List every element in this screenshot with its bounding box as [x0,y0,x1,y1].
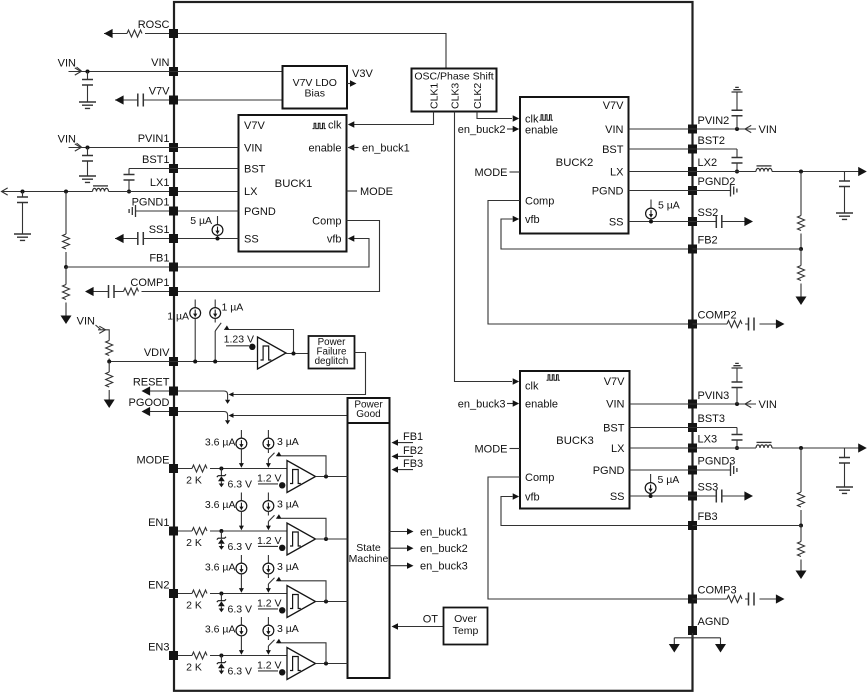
arrow 3.6uA into line (EN3) [239,650,244,655]
zener diode 6.3V (EN3) [220,656,222,663]
wire VIN source leader [77,67,82,71]
node VDIV junction [107,360,111,364]
svg-text:VIN: VIN [759,399,777,411]
current source 5uA (SS3) [650,474,652,483]
capacitor COMP1 external [109,285,115,298]
resistor FB1 divider top [65,192,67,268]
capacitor BST1 bootstrap [128,169,130,192]
current source 3.6uA (EN3) [240,617,242,625]
svg-text:6.3 V: 6.3 V [228,479,253,491]
svg-text:5 µA: 5 µA [658,474,680,486]
svg-text:en_buck1: en_buck1 [362,143,410,155]
arrow VIN source [75,68,81,75]
pin PVIN2 [688,125,697,134]
svg-text:SS: SS [244,234,259,246]
arrow FB3 into State Machine [392,466,399,472]
arrow ROSC external [104,29,113,38]
arrow en_buck1 into BUCK1 [348,144,355,150]
svg-text:SS: SS [609,217,624,229]
node comparator output junction (EN1) [324,537,328,541]
svg-text:LX2: LX2 [698,157,718,169]
wire BST1 to BUCK1 [129,168,239,170]
resistor 2K (EN1) [192,528,207,535]
wire deglitch to RESET [232,353,366,395]
arrow VIN source (VDIV) [99,326,105,333]
wire BUCK3 PGND to PGND3 [630,469,731,471]
current source 5uA (SS2) [650,200,652,209]
svg-text:PGND1: PGND1 [132,197,170,209]
ground PVIN1 cap [79,176,96,182]
ground VIN input cap [79,102,96,108]
svg-text:vfb: vfb [525,214,540,226]
arrow feedback to switch (EN3) [275,639,282,646]
svg-text:BST1: BST1 [142,154,170,166]
node zener junction (EN1) [219,529,223,533]
ground LX2 output cap [836,213,853,219]
node comparator output junction (EN3) [324,662,328,666]
wire EN3 row [178,655,287,657]
svg-text:V7V: V7V [604,376,625,388]
pin COMP2 [688,320,697,329]
svg-text:5 µA: 5 µA [190,215,212,227]
svg-text:V7V: V7V [603,100,624,112]
resistor 2K (MODE) [192,465,207,472]
pin BST1 [169,164,178,173]
wire comparator feedback to switch [226,330,294,354]
node 1uA right junction [213,360,217,364]
wire comparator output to deglitch [286,353,309,355]
svg-text:VIN: VIN [606,399,624,411]
pin SS2 [688,217,697,226]
arrow PGOOD pulldown [225,420,230,424]
ground AGND right arrow [715,644,726,653]
svg-text:OSC/Phase Shift: OSC/Phase Shift [414,71,493,83]
wire PGOOD internal elbow [178,412,228,421]
op-amp U_VDIV comparator [258,337,287,369]
pin BST3 [688,423,697,432]
wire BUCK2 PGND to PGND2 [629,190,731,192]
inductor L3 [756,445,772,448]
svg-text:enable: enable [308,143,341,155]
arrow CLK3 into BUCK3 [513,378,520,384]
wire VIN to LDO [69,71,283,73]
wire LX1 output rail [2,191,170,193]
pin MODE [169,464,178,473]
switch 1uA hysteresis [215,323,221,331]
wire VDIV divider top [98,330,109,362]
wire BUCK3 VIN to PVIN3 [630,403,757,405]
wire LX1 to BUCK1 [178,191,239,193]
svg-text:6.3 V: 6.3 V [228,666,253,678]
ground AGND left arrow [669,644,680,653]
block Power Failure deglitch [309,336,355,369]
node SS1 current source junction [216,237,220,241]
label BUCK2 MODE stub [510,171,521,173]
switch 3uA (EN1) [268,515,274,521]
ground PVIN3 cap [732,363,743,368]
wire SS2 cap to arrow [722,221,745,223]
inductor L2 [756,168,772,171]
capacitor PVIN3 input [736,368,738,404]
capacitor LX2 output [844,172,846,214]
pin COMP3 [688,595,697,604]
arrow FB3 into vfb (BUCK3) [513,493,520,499]
svg-text:3.6 µA: 3.6 µA [205,499,236,511]
svg-text:V7V: V7V [244,120,265,132]
svg-text:FB3: FB3 [403,458,423,470]
arrow SS2 external [744,217,753,226]
arrow en_buck3 output [407,563,414,569]
arrow VIN source (PVIN2) [745,125,751,132]
ground PGND2 [731,185,737,197]
svg-text:3.6 µA: 3.6 µA [205,437,236,449]
svg-text:LX1: LX1 [150,177,170,189]
arrow VIN source (PVIN3) [745,400,751,407]
svg-text:PGND3: PGND3 [698,456,736,468]
svg-text:BUCK1: BUCK1 [275,178,313,190]
resistor ROSC external [127,30,142,37]
resistor FB2 divider top [800,172,802,250]
ground PGND1 [129,205,135,217]
arrow LX2 output [858,167,867,176]
wire FB1 into State Machine [394,442,413,444]
svg-text:1 µA: 1 µA [222,302,244,314]
svg-text:FB2: FB2 [698,235,718,247]
svg-text:3 µA: 3 µA [277,499,299,511]
svg-text:LX: LX [611,443,625,455]
svg-text:VIN: VIN [605,124,623,136]
wire 1.2V ref (EN3) [258,670,278,672]
svg-text:SS2: SS2 [698,207,719,219]
svg-text:FB1: FB1 [149,253,169,265]
wire SS1 external [115,238,169,240]
block Power Good [348,398,390,423]
arrow LX3 output [858,443,867,452]
pin LX2 [688,167,697,176]
resistor COMP3 external [727,596,742,603]
current source 3.6uA (EN2) [240,555,242,563]
switch 3uA (EN2) [268,578,274,584]
wire V7V to LDO [178,99,283,101]
arrow RESET pulldown [225,400,230,404]
wire EN2 row [178,593,287,595]
svg-text:CLK3: CLK3 [450,83,462,109]
wire PGOOD external [150,411,169,413]
svg-text:EN3: EN3 [148,642,169,654]
node PVIN1 cap junction [86,146,90,150]
node LX3 output cap junction [799,446,803,450]
svg-text:MODE: MODE [475,167,508,179]
wire 1.2V ref (EN2) [258,608,278,610]
wire comparator feedback (MODE) [278,456,327,477]
arrow LX1 output [2,188,8,195]
wire FB2 external [693,248,802,250]
svg-text:2 K: 2 K [186,662,202,674]
svg-text:deglitch: deglitch [315,356,349,367]
wire RESET internal elbow [178,391,228,400]
svg-text:PGOOD: PGOOD [129,397,170,409]
pin SS1 [169,234,178,243]
node comparator output junction (EN2) [324,600,328,604]
svg-text:VDIV: VDIV [144,347,170,359]
zener diode 6.3V (EN1) [220,531,222,538]
capacitor SS2 external [716,215,722,228]
pin PGOOD [169,407,178,416]
zener diode 6.3V (EN2) [220,594,222,601]
svg-text:CLK2: CLK2 [472,83,484,109]
node zener junction (EN3) [219,654,223,658]
svg-text:PGND: PGND [244,206,276,218]
capacitor SS3 external [716,490,722,503]
wire comparator output (EN1) [316,538,348,540]
wire comparator feedback (EN3) [278,643,327,664]
wire 1.2V ref (EN1) [258,545,278,547]
svg-text:PVIN2: PVIN2 [698,115,730,127]
pin EN1 [169,527,178,536]
current source 3uA (EN1) [267,493,269,501]
svg-text:V3V: V3V [352,68,373,80]
capacitor V7V external [138,94,144,107]
wire Power Good to PGOOD [232,415,348,417]
wire comparator output (MODE) [316,476,348,478]
wire COMP3 external [693,598,777,600]
svg-text:6.3 V: 6.3 V [228,604,253,616]
arrow 3uA into line (EN2) [266,588,271,593]
svg-text:CLK1: CLK1 [429,83,441,109]
arrow CLK1 into BUCK1 [348,121,355,127]
pin PVIN3 [688,400,697,409]
arrow SS3 external [744,491,753,500]
svg-text:1.2 V: 1.2 V [257,535,282,547]
wire en_buck2 output [390,547,408,549]
resistor COMP2 external [727,321,742,328]
ground FB1 divider [61,316,72,325]
svg-text:enable: enable [525,399,558,411]
op-amp comparator (MODE) [287,461,316,493]
svg-text:PGND: PGND [593,465,625,477]
svg-text:Machine: Machine [349,553,389,565]
wire en_buck3 output [390,565,408,567]
ground LX3 output cap [836,487,853,493]
arrow V3V output [350,80,357,86]
resistor VDIV bottom [108,362,110,400]
svg-text:MODE: MODE [360,186,393,198]
wire AGND branches [674,633,720,644]
svg-text:BST2: BST2 [698,135,726,147]
op-amp comparator (EN3) [287,648,316,680]
svg-text:MODE: MODE [475,444,508,456]
svg-text:Bias: Bias [305,88,325,100]
node PVIN3 cap junction [735,402,739,406]
label BUCK3 MODE stub [510,448,521,450]
svg-text:COMP2: COMP2 [698,310,737,322]
capacitor COMP2 external [749,318,755,331]
svg-text:Comp: Comp [312,216,341,228]
svg-text:LX: LX [610,167,624,179]
svg-text:en_buck2: en_buck2 [420,543,468,555]
svg-text:en_buck1: en_buck1 [420,527,468,539]
svg-text:SS1: SS1 [149,224,170,236]
svg-text:Comp: Comp [525,472,554,484]
wire SS3 cap to arrow [722,495,745,497]
wire FB1 to BUCK1 vfb [178,239,369,268]
resistor COMP1 external [124,288,139,295]
wire BUCK3 Comp to COMP3 [488,477,688,599]
svg-text:en_buck2: en_buck2 [458,124,506,136]
arrow CLK2 into BUCK2 [513,115,520,121]
arrow en_buck2 into BUCK2 [513,126,520,132]
wire VDIV to comparator [109,361,257,363]
arrow PGOOD external [142,407,151,416]
pin EN2 [169,589,178,598]
svg-text:SS3: SS3 [698,482,719,494]
svg-text:en_buck3: en_buck3 [420,561,468,573]
svg-text:PVIN3: PVIN3 [698,390,730,402]
wire comparator output (EN2) [316,601,348,603]
node 1.2V ref dot (EN2) [279,607,285,613]
svg-text:Over: Over [454,613,477,625]
wire PVIN1 to BUCK1 VIN [69,147,239,149]
arrow COMP3 external [776,594,785,603]
wire 1.2V ref (MODE) [258,483,278,485]
wire FB3 to BUCK3 vfb [501,497,688,526]
pin AGND [688,626,697,635]
wire BUCK3 BST to BST3 [630,427,738,429]
wire en_buck1 output [390,531,408,533]
ground LX1 output cap [14,234,31,240]
svg-text:BUCK2: BUCK2 [556,157,594,169]
current source 3uA (EN2) [267,555,269,563]
node LX1 output cap junction [21,190,25,194]
arrow en_buck2 output [407,545,414,551]
op-amp comparator (EN2) [287,586,316,618]
svg-text:OT: OT [423,614,439,626]
arrow en_buck1 output [407,528,414,534]
svg-text:3 µA: 3 µA [277,436,299,448]
node BST3 cap to LX3 [735,446,739,450]
node zener junction (EN2) [219,592,223,596]
arrow VIN source (PVIN1) [75,144,81,151]
svg-text:Good: Good [356,409,380,420]
svg-text:3 µA: 3 µA [277,561,299,573]
node BST2 cap to LX2 [735,170,739,174]
svg-text:MODE: MODE [137,455,170,467]
svg-text:PGND2: PGND2 [698,176,736,188]
pin SS3 [688,492,697,501]
wire comparator output (EN3) [316,663,348,665]
wire COMP1 external [94,291,170,293]
switch 3uA (EN3) [268,640,274,646]
pin V7V [169,96,178,105]
node FB1 divider top junction [64,190,68,194]
svg-text:BUCK3: BUCK3 [556,435,594,447]
block Over Temp [444,608,488,645]
wire BUCK3 LX to LX3 rail [630,447,861,449]
block U_LDO V7V LDO Bias [283,66,348,109]
block OSC/Phase Shift [412,69,497,112]
pin FB1 [169,263,178,272]
svg-text:LX3: LX3 [698,434,718,446]
arrow FB1 into vfb [348,235,355,241]
pin PGND3 [688,466,697,475]
arrow 3.6uA into line (MODE) [239,463,244,468]
capacitor PVIN2 input [736,92,738,129]
capacitor BST3 bootstrap [736,428,738,449]
wire FB3 into State Machine [394,469,413,471]
node comparator output junction [292,352,296,356]
resistor 2K (EN3) [192,652,207,659]
wire ROSC to oscillator [178,34,446,69]
node zener junction (MODE) [219,467,223,471]
resistor FB2 divider bottom [800,249,802,297]
wire CLK3 to BUCK3 [455,112,513,382]
current source 3uA (EN3) [267,617,269,625]
wire EN1 row [178,530,287,532]
arrow Power Good to PGOOD elbow [229,413,234,418]
label BUCK1 MODE stub [347,190,358,192]
pin PGND2 [688,186,697,195]
arrow FB2 into State Machine [392,453,399,459]
node comparator output junction (MODE) [324,475,328,479]
wire CLK2 to BUCK2 [477,112,512,119]
ground FB3 divider [796,571,807,580]
switch 3uA (MODE) [268,453,274,459]
svg-text:BST: BST [602,144,624,156]
ground VDIV divider [104,400,115,409]
arrow 3.6uA into line (EN2) [239,588,244,593]
resistor VDIV top [106,341,113,356]
pin EN3 [169,651,178,660]
svg-text:BST: BST [603,423,625,435]
svg-text:FB2: FB2 [403,445,423,457]
arrow feedback to switch [223,325,230,332]
wire BUCK2 BST to BST2 [629,148,738,150]
wire ROSC external [104,33,169,35]
ground PVIN2 cap [732,87,743,92]
arrow COMP1 external [85,287,94,296]
svg-text:VIN: VIN [58,134,76,146]
pin LX3 [688,444,697,453]
svg-text:1.2 V: 1.2 V [257,598,282,610]
node BST1 cap to LX1 [127,190,131,194]
pin FB2 [688,245,697,254]
wire V3V output [347,83,350,85]
svg-text:VIN: VIN [151,57,169,69]
svg-text:Comp: Comp [525,196,554,208]
wire COMP2 external [693,323,777,325]
svg-text:EN2: EN2 [148,580,169,592]
wire PGND1 external [136,210,170,212]
svg-text:enable: enable [525,125,558,137]
arrow COMP2 external [776,319,785,328]
wire CLK1 to BUCK1 [349,112,434,125]
svg-text:2 K: 2 K [186,600,202,612]
node FB3 divider mid [799,524,803,528]
wire BUCK2 Comp to COMP2 [488,201,688,325]
svg-text:6.3 V: 6.3 V [228,541,253,553]
svg-text:BST: BST [244,164,266,176]
pin PGND1 [169,207,178,216]
wire BUCK2 VIN to PVIN2 [629,128,757,130]
wire comparator feedback (EN2) [278,581,327,602]
current source 5uA (SS1) [217,216,219,225]
svg-text:EN1: EN1 [148,517,169,529]
current source 1uA left [194,300,196,308]
svg-text:en_buck3: en_buck3 [458,399,506,411]
svg-text:SS: SS [610,491,625,503]
wire SS1 to BUCK1 [178,238,239,240]
arrow 3uA into line (EN3) [266,650,271,655]
